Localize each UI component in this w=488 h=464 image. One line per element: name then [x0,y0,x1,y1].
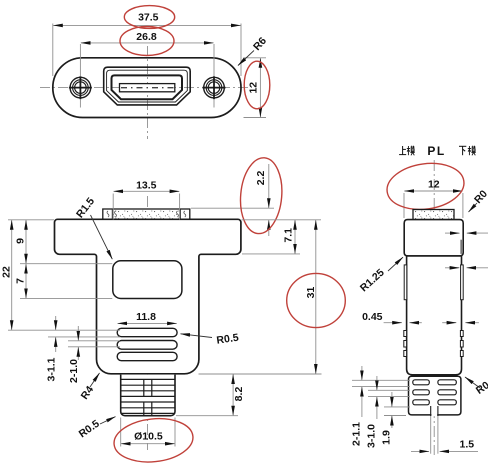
svg-text:0.45: 0.45 [362,311,383,323]
svg-text:2-1.0: 2-1.0 [68,359,80,383]
dim 12 (top view height) [244,58,267,118]
rib slot row 2 [413,390,430,395]
dim 13.5 [113,191,179,219]
svg-text:26.8: 26.8 [136,31,157,43]
svg-text:2.2: 2.2 [255,171,267,186]
screw hole right [203,76,226,99]
svg-text:31: 31 [305,287,317,299]
dim 3-1.1 [48,316,120,352]
dim 37.5 [53,24,241,77]
dim 7 [20,264,112,298]
dim 11.8 [118,322,177,324]
screw hole left [69,76,92,99]
HDMI opening [112,75,183,99]
leader R1.5 [91,215,113,259]
red ellipse around 2.2 [237,156,284,235]
svg-text:12: 12 [428,179,440,191]
left edge pad [404,265,407,300]
leader R0 top right (cut) [469,203,478,212]
svg-text:22: 22 [1,266,13,278]
dim 9 [8,220,112,264]
svg-text:3-1.1: 3-1.1 [46,357,58,381]
plug tab (front) [103,209,190,219]
svg-text:1.9: 1.9 [381,430,393,445]
leader R6 [238,51,254,66]
dim 26.8 [81,42,214,44]
small arrow pair row 1 (right edge) [445,232,488,234]
dim 31 [315,220,317,373]
small arrow pair row 2 (right edge) [445,267,488,269]
dim 1.5 (side bottom) [411,450,478,452]
rib slot row 3 [413,400,430,405]
svg-text:2-1.1: 2-1.1 [351,422,363,446]
dim 2-1.0 [68,326,120,360]
right edge pad lower [461,265,464,300]
svg-text:PL: PL [427,144,445,158]
svg-text:11.8: 11.8 [136,311,156,323]
svg-text:13.5: 13.5 [136,179,157,191]
dim 0.45 [384,322,479,324]
svg-text:3-1.0: 3-1.0 [366,424,378,448]
grip slot 1 [117,328,177,336]
wire: front view vertical centerline [147,196,149,450]
red ellipse around 37.5 [124,6,174,29]
grip slot 3 [117,352,177,360]
red ellipse around 10.5 [112,415,195,464]
dim 22 [8,220,120,330]
svg-text:9: 9 [14,238,26,244]
HDMI receptacle outer shell [104,67,191,105]
HDMI shell inner line [107,70,188,102]
front body silhouette [55,219,241,373]
wire: right hole vertical centerline [213,44,215,77]
strain relief boot (front) [121,375,175,416]
leader R1.25 [388,257,403,271]
label lower mold [459,146,466,155]
leader R0.5 lower [100,417,116,424]
flange stadium outline [53,58,241,118]
red ellipse around 12 (top view) [244,61,270,109]
dim 3-1.0 (side) [368,376,410,419]
leader R0.5 (cut, bottom right) [465,377,480,388]
dim diameter 10.5 [121,418,175,447]
red circle around 31 [287,273,346,327]
wire: horizontal centerline of top view [40,87,252,89]
wire: vertical centerline of top view [147,46,149,139]
dim 2.2 [191,164,274,236]
dim 2-1.1 (side) [352,366,410,417]
dim 12 (side) [404,191,463,218]
svg-text:12: 12 [248,82,260,94]
right edge bumps [460,331,463,337]
strain relief (side) [409,376,461,415]
red ellipse around 12 (side) [384,159,467,215]
svg-text:37.5: 37.5 [138,12,159,24]
svg-text:7: 7 [15,278,27,284]
red ellipse around 26.8 [120,27,174,56]
svg-text:8.2: 8.2 [233,387,245,402]
dim 8.2 [176,374,322,416]
HDMI tongue [120,84,175,92]
wire: left hole vertical centerline [79,44,81,77]
grip slot 2 [117,341,177,350]
wire: contact dash line on tongue [121,87,174,89]
right edge pad upper [460,240,462,254]
side lower body [407,256,462,375]
leader R4 [90,373,100,387]
rib slot row 1 [413,380,430,385]
recess rounded rect [113,261,182,299]
svg-text:Ø10.5: Ø10.5 [134,430,163,442]
left edge bumps [404,331,407,337]
dim 1.9 (side) [384,392,410,428]
dim 7.1 [242,220,322,254]
svg-text:1.5: 1.5 [459,439,474,451]
label upper mold [399,146,406,155]
bottom notch lines [431,414,437,417]
plug tab (side) [413,210,454,220]
leader R0.5 upper [181,334,213,338]
svg-text:7.1: 7.1 [283,228,295,243]
strain relief ribs (front) [121,379,175,415]
wire: side view vertical centerline [433,160,435,455]
side head [404,220,463,256]
